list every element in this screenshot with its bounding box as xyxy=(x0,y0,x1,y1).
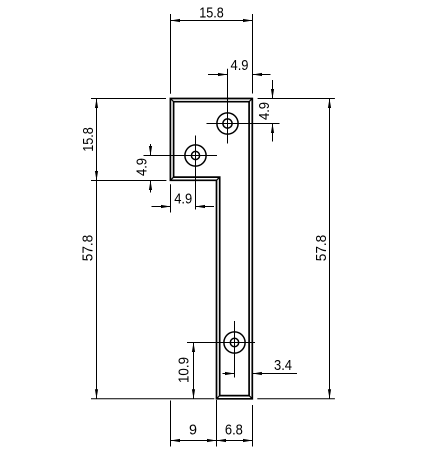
dimension D3 4.9 right: top edge extension line xyxy=(258,98,335,100)
dimension D4 4.9 left: arrow lines outside xyxy=(149,144,152,193)
hole H2 centerline vertical xyxy=(195,136,197,210)
dimension D1 15.8 top: extension lines xyxy=(171,14,253,94)
dimension D3 4.9 right: arrow lines outside xyxy=(271,80,274,142)
part outline: outer contour xyxy=(170,99,252,399)
dimension D10 10.9: dimension line with arrows xyxy=(192,343,195,399)
hole H1 (top right): counterbore circle xyxy=(217,113,238,134)
dimension D5/D6 shared dimension line xyxy=(95,99,98,399)
dimension D12 9: extension lines xyxy=(171,400,217,447)
svg-text:4.9: 4.9 xyxy=(231,57,249,74)
dimension D5 15.8 left: step edge extension line xyxy=(91,180,166,182)
hole H1 centerline vertical xyxy=(227,69,229,144)
dimension D13 6.8: dimension line with arrows xyxy=(217,439,253,442)
svg-text:57.8: 57.8 xyxy=(80,235,97,262)
dimension D13 6.8: value label xyxy=(225,422,243,439)
dimension D7 57.8 right: value label (rotated) xyxy=(313,235,330,262)
svg-text:15.8: 15.8 xyxy=(199,5,224,22)
svg-text:10.9: 10.9 xyxy=(176,357,193,383)
dimension D7 57.8 right: dimension line with arrows xyxy=(328,99,331,399)
svg-text:4.9: 4.9 xyxy=(134,158,151,176)
part outline: corner edge diagonals xyxy=(170,99,252,399)
dimension D6 57.8 left: value label (rotated) xyxy=(80,235,97,262)
dimension D8 4.9: value label xyxy=(174,191,192,208)
hole H2 centerline horizontal xyxy=(144,155,218,157)
dimension D13 6.8: right extension line xyxy=(252,405,254,447)
svg-text:15.8: 15.8 xyxy=(80,127,97,152)
dimension D12 9: value label xyxy=(189,422,197,439)
dimension D1 15.8 top: value label xyxy=(199,5,224,22)
dimension D12 9: dimension line with arrows xyxy=(171,439,217,442)
dimension D7 57.8 right: bottom edge extension line xyxy=(257,398,335,400)
dimension D10 10.9: value label (rotated) xyxy=(176,357,193,383)
hole H2 (mid left): counterbore circle xyxy=(185,145,206,166)
svg-text:57.8: 57.8 xyxy=(313,235,330,262)
hole H3 (bottom strip): counterbore circle xyxy=(224,332,245,353)
svg-text:4.9: 4.9 xyxy=(174,191,192,208)
dimension D8 4.9: arrow lines outside xyxy=(152,205,215,208)
dimension D3 4.9 right: value label (rotated) xyxy=(256,102,273,120)
dimension D4 4.9 left: value label (rotated) xyxy=(134,158,151,176)
dimension D5 15.8 left: value label (rotated) xyxy=(80,127,97,152)
svg-text:4.9: 4.9 xyxy=(256,102,273,120)
svg-text:9: 9 xyxy=(189,422,197,439)
svg-text:6.8: 6.8 xyxy=(225,422,243,439)
dimension D1 15.8 top: dimension line with arrows xyxy=(171,19,253,22)
hole H3 centerline horizontal xyxy=(187,342,255,344)
dimension D8 4.9: left edge extension line xyxy=(170,184,172,212)
part outline: inner offset contour xyxy=(174,102,250,396)
dimension D5 15.8 left: top edge extension line xyxy=(91,98,166,100)
dimension D11 3.4: value label xyxy=(274,357,292,374)
hole H1 centerline horizontal xyxy=(207,123,280,125)
dimension D2 4.9 top: arrow lines outside xyxy=(208,73,271,76)
dimension D11 3.4: arrow lines outside xyxy=(223,372,298,375)
svg-text:3.4: 3.4 xyxy=(274,357,292,374)
dimension D2 4.9 top: value label xyxy=(231,57,249,74)
dimension D6 57.8 left: bottom edge extension line xyxy=(91,398,214,400)
hole H3 centerline vertical xyxy=(234,321,236,378)
